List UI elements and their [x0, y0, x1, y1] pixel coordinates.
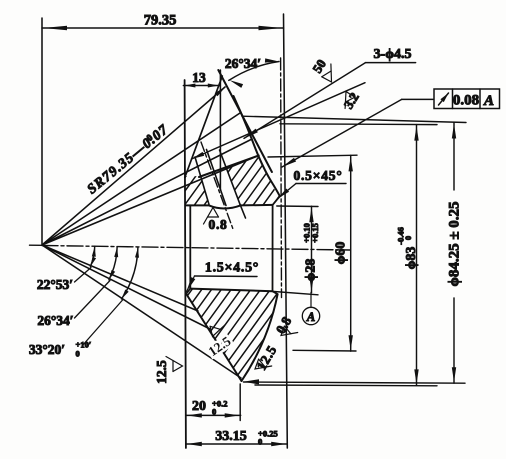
roughness mark 3.2 on pitch line: [345, 92, 355, 109]
angle arc 22deg53: [90, 246, 94, 266]
svg-text:13: 13: [192, 70, 206, 85]
svg-text:0: 0: [212, 407, 216, 417]
svg-text:12.5: 12.5: [205, 333, 233, 359]
runout symbol arrow: [439, 93, 449, 105]
svg-text:ϕ84.25 ± 0.25: ϕ84.25 ± 0.25: [447, 201, 463, 286]
svg-text:ϕ83: ϕ83: [404, 247, 419, 270]
angle arc 26deg34: [109, 247, 117, 280]
section hatching upper web right of hole: [161, 145, 326, 210]
back face dash-dot extension: [280, 58, 283, 298]
leader 22deg53: [75, 268, 92, 283]
pitch generator dimension line: [192, 83, 366, 159]
svg-text:+0.10: +0.10: [302, 223, 312, 243]
svg-text:ϕ60: ϕ60: [334, 242, 349, 265]
tooth root line (hatch boundary): [199, 156, 259, 178]
hole wall stub into bore: [240, 204, 246, 218]
feature control frame runout 0.08 A: [434, 89, 500, 109]
hole wall left: [207, 150, 227, 206]
root angle line 22deg53 below axis: [42, 245, 198, 311]
ext line phi28 top: [277, 205, 318, 208]
svg-text:0: 0: [76, 349, 80, 359]
leader 0.5x45: [278, 184, 296, 199]
dimension line phi28: [311, 206, 313, 292]
ext line phi60 top: [268, 155, 357, 157]
svg-text:-0.46: -0.46: [396, 227, 406, 245]
svg-text:20: 20: [192, 399, 206, 414]
dimension line phi60: [350, 155, 352, 351]
svg-text:3.2: 3.2: [341, 90, 362, 112]
dimension line 13: [183, 85, 219, 87]
hole wall outer left: [195, 157, 209, 205]
angle arc 33deg20: [122, 247, 138, 299]
svg-text:0.08: 0.08: [453, 93, 479, 109]
dimension line 79.35: [42, 27, 284, 29]
tooth big-end face line A: [218, 70, 272, 172]
lower-left slant face: [186, 294, 242, 382]
ext line 20 right: [239, 384, 241, 421]
centerline gear axis: [42, 246, 350, 251]
face angle line 33deg20 below axis: [42, 245, 241, 378]
centerline drilled hole axis: [201, 142, 233, 229]
svg-text:26°34′: 26°34′: [37, 313, 73, 328]
dimension line phi84.25: [453, 123, 455, 191]
spherical back cone arc upper: [234, 96, 280, 196]
extension line back face long: [284, 14, 288, 448]
spherical back cone arc lower: [242, 294, 278, 381]
roughness 12.5 lower-left slant: [210, 325, 225, 337]
hole wall right: [220, 150, 241, 204]
groove chamfer 1.5x4.5: [186, 289, 190, 295]
leader line 3-phi4.5: [244, 63, 366, 139]
pitch cone line: [42, 139, 252, 245]
chamfer 0.5x45 back bore corner: [273, 196, 280, 205]
ext line top phi84.25: [242, 116, 466, 122]
svg-text:0.8: 0.8: [209, 217, 228, 232]
dimension line phi83: [416, 125, 418, 386]
ext line phi28 bottom: [273, 291, 319, 294]
root cone line from apex: [42, 156, 259, 246]
front face line / extension line: [185, 80, 186, 448]
extension line for 13 dim: [219, 70, 221, 190]
roughness 12.5 front face: [166, 357, 183, 372]
svg-text:+0.15: +0.15: [310, 223, 320, 243]
chamfer back bore corner lower: [273, 291, 278, 294]
bore inner vertical feature line: [189, 206, 191, 289]
svg-text:12.5: 12.5: [154, 360, 169, 384]
ext line bottom phi83: [255, 384, 437, 387]
leader underline 1.5x4.5: [195, 275, 258, 278]
front cone face edge / small-end extension: [185, 76, 223, 178]
centerline left tail: [30, 244, 43, 246]
svg-text:79.35: 79.35: [144, 13, 177, 29]
svg-text:1.5×4.5°: 1.5×4.5°: [205, 261, 259, 276]
svg-text:33.15: 33.15: [215, 429, 247, 444]
svg-text:A: A: [483, 93, 494, 109]
ext line top phi83: [280, 123, 437, 126]
FCF leader slant: [282, 99, 402, 167]
ext line phi60 bottom: [293, 349, 356, 352]
ext line bottom phi84.25: [244, 382, 466, 383]
roughness 0.8 lower-right arc: [281, 326, 298, 335]
svg-text:3-ϕ4.5: 3-ϕ4.5: [374, 47, 412, 62]
bore top edge with hole exit bump: [185, 205, 272, 209]
roughness mark 50 on hole leader: [322, 64, 332, 82]
svg-text:0.5×45°: 0.5×45°: [293, 168, 342, 183]
datum A circle: [310, 292, 312, 307]
extension line left apex plane: [41, 18, 43, 244]
SR79.35 dimension line: [42, 87, 225, 245]
section hatching lower hub: [103, 285, 352, 385]
leader 33deg20: [82, 300, 123, 347]
roughness 12.5 lower-right arc: [255, 359, 272, 369]
FCF leader horizontal: [402, 98, 433, 100]
bore back corner vertical line: [272, 205, 274, 291]
svg-text:33°20′: 33°20′: [29, 342, 65, 357]
svg-text:50: 50: [309, 57, 329, 76]
angle arc 26deg34 top: [229, 62, 279, 81]
svg-text:22°53′: 22°53′: [37, 277, 73, 292]
roughness 0.8 in bore: [204, 208, 219, 225]
svg-text:ϕ28: ϕ28: [304, 259, 319, 282]
dimension line 33.15: [186, 443, 287, 445]
svg-text:26°34′: 26°34′: [225, 56, 261, 71]
face cone line to tooth tip: [42, 113, 240, 245]
dimension line 20: [186, 414, 241, 416]
leader 26deg34: [75, 281, 111, 319]
leader underline 3-phi4.5: [366, 62, 416, 64]
bore bottom edge: [190, 289, 272, 292]
section hatching upper web left of hole: [132, 145, 277, 210]
svg-text:0.8: 0.8: [273, 314, 295, 336]
svg-text:0: 0: [258, 437, 262, 447]
pitch angle line 26deg34 below axis: [42, 245, 210, 329]
svg-text:A: A: [306, 310, 315, 324]
